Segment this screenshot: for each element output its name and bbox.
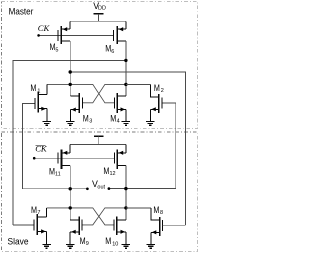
svg-text:M: M — [31, 205, 37, 215]
ground of M2 — [146, 122, 154, 126]
svg-text:Master: Master — [9, 7, 34, 17]
slave box dashed border — [2, 132, 198, 251]
wire left output to Vout pin — [23, 188, 88, 190]
svg-text:1: 1 — [37, 88, 40, 94]
VDD supply symbol (master) — [93, 1, 106, 22]
ground of M8 — [147, 244, 155, 248]
node Vout right pin — [108, 187, 111, 190]
svg-text:8: 8 — [160, 210, 163, 216]
svg-text:M: M — [154, 83, 160, 93]
svg-text:5: 5 — [55, 47, 58, 53]
VDD supply symbol (slave) — [94, 136, 104, 145]
wire B node X to right column — [70, 72, 185, 225]
svg-text:M: M — [83, 113, 89, 123]
node CK input pin — [37, 34, 40, 37]
node Vout left pin — [86, 187, 89, 190]
svg-text:DD: DD — [98, 5, 106, 11]
ground of M1 — [43, 122, 51, 126]
transistor M10 (NMOS cross-coupled, slave) — [105, 217, 126, 248]
svg-text:6: 6 — [111, 49, 114, 55]
svg-text:M: M — [30, 83, 36, 93]
wire node Y vertical (M6 drain down to M4 drain) — [125, 41, 127, 96]
wire slave node vertical right (M12 drain to M10 drain) — [125, 166, 127, 220]
wire M2 gate feedback from slave — [162, 103, 176, 189]
node junction X / wire B — [69, 70, 72, 73]
transistor M7 (NMOS input, slave) — [13, 205, 47, 244]
node junction Y / wire A — [124, 59, 127, 62]
transistor M4 (NMOS cross-coupled, master) — [110, 93, 126, 124]
wire M1 gate feedback from slave — [23, 103, 36, 188]
transistor M11 (PMOS, clocked, slave) — [49, 145, 70, 178]
svg-text:10: 10 — [112, 241, 118, 247]
wire slave node vertical left (M11 drain to M9 drain) — [69, 166, 71, 220]
ground of M4 — [122, 122, 130, 126]
svg-text:12: 12 — [110, 171, 116, 177]
transistor M8 (NMOS input, slave) — [126, 205, 186, 244]
transistor M2 (NMOS input, master) — [126, 83, 164, 121]
svg-text:9: 9 — [86, 241, 89, 247]
ground of M9 — [66, 244, 74, 248]
svg-text:out: out — [97, 184, 105, 190]
wire slave node X row — [47, 208, 115, 225]
node junction slave left — [69, 206, 72, 209]
node junction output right — [124, 187, 127, 190]
transistor M1 (NMOS input, master) — [30, 83, 46, 121]
wire master node Y row — [82, 84, 150, 102]
wire A node Y to left column — [13, 60, 126, 225]
VDD rail (master) — [70, 20, 126, 22]
node CKbar input pin — [33, 157, 36, 160]
node junction slave right — [124, 206, 127, 209]
svg-text:4: 4 — [117, 118, 120, 124]
wire slave node Y row — [82, 208, 151, 225]
ground of M7 — [42, 244, 50, 248]
wire master node X row — [47, 84, 115, 102]
svg-text:M: M — [110, 113, 116, 123]
wire right output to Vout pin — [109, 188, 176, 190]
node junction X row — [69, 83, 72, 86]
svg-text:CK: CK — [38, 23, 51, 33]
svg-text:7: 7 — [37, 210, 40, 216]
transistor M12 (PMOS, clocked, slave) — [103, 145, 126, 178]
svg-text:Slave: Slave — [8, 237, 29, 247]
master box dashed border — [2, 2, 198, 128]
transistor M6 (PMOS, clocked) — [105, 21, 126, 55]
ground of M10 — [122, 244, 130, 248]
svg-text:M: M — [80, 236, 86, 246]
transistor M3 (NMOS cross-coupled, master) — [70, 93, 92, 124]
svg-text:2: 2 — [161, 88, 164, 94]
svg-text:M: M — [105, 236, 111, 246]
node junction Y row — [124, 83, 127, 86]
svg-text:3: 3 — [89, 118, 92, 124]
wire node X vertical (M5 drain down to M3 drain) — [69, 41, 71, 96]
node junction output left — [69, 187, 72, 190]
transistor M9 (NMOS cross-coupled, slave) — [70, 217, 89, 248]
transistor M5 (PMOS, clocked) — [50, 21, 71, 53]
wire CK line to gates of M5 and M6 — [39, 34, 114, 36]
svg-text:11: 11 — [55, 171, 61, 177]
VDD rail (slave) — [70, 144, 126, 146]
wire CKbar line to gates of M11 and M12 — [34, 157, 114, 159]
ground of M3 — [66, 122, 74, 126]
svg-text:M: M — [103, 166, 109, 176]
svg-text:M: M — [153, 205, 159, 215]
